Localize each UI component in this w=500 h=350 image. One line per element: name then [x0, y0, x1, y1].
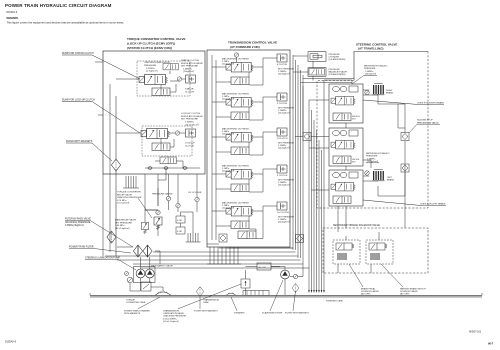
- ECMV transmission F clutch: [226, 169, 253, 179]
- torque converter control valve enclosure box: [103, 51, 205, 174]
- svg-text:D155AX-6: D155AX-6: [5, 341, 17, 344]
- remark sentence: [7, 20, 125, 24]
- wire: TC inner trunk x110: [109, 84, 111, 252]
- pressure gauge right brake: [365, 90, 369, 94]
- label: brake pedal solenoid valve: [349, 264, 379, 296]
- svg-text:SCAVENGING PUMP: SCAVENGING PUMP: [262, 312, 283, 315]
- svg-text:CONVERTER CASE: CONVERTER CASE: [126, 301, 146, 304]
- clutch box 3: [277, 93, 287, 101]
- svg-text:R CLUTCH: R CLUTCH: [277, 138, 288, 140]
- gauge next to scavenging pump: [293, 274, 297, 278]
- svg-text:SOLENOID VALVE: SOLENOID VALVE: [361, 290, 379, 293]
- svg-text:PREVENTION VALVE: PREVENTION VALVE: [417, 121, 439, 124]
- svg-text:D155AX-6: D155AX-6: [7, 11, 18, 14]
- svg-text:(1/F ADD/PRESS): (1/F ADD/PRESS): [329, 73, 346, 76]
- text set pressure g3: [278, 143, 295, 150]
- svg-text:BRAKE: BRAKE: [386, 92, 394, 95]
- svg-text:VLV: VLV: [352, 162, 356, 164]
- heading: transmission control valve: [228, 41, 277, 49]
- secondary valve row lock-up group: [152, 143, 170, 151]
- svg-text:MAX WORKING OIL PRESS: MAX WORKING OIL PRESS: [222, 93, 249, 96]
- P/N relief valve box 2: [308, 68, 326, 77]
- label: P/N relief cylinder: [329, 54, 346, 61]
- wire: goes-for-left-brake feed: [363, 160, 371, 168]
- power train filter diamond A: [133, 245, 142, 257]
- svg-text:LOCK-UP: LOCK-UP: [185, 143, 195, 145]
- tank line double: [90, 293, 482, 297]
- svg-text:OIL CLR: OIL CLR: [258, 267, 266, 269]
- svg-text:MAX WORKING OIL PRESS: MAX WORKING OIL PRESS: [222, 202, 249, 205]
- svg-text:CASE: CASE: [203, 301, 209, 304]
- svg-text:POWER TRAIN HYDRAULIC CIRCUIT: POWER TRAIN HYDRAULIC CIRCUIT DIAGRAM: [5, 3, 112, 8]
- svg-text:MODULATION VALVE: MODULATION VALVE: [181, 115, 203, 118]
- label: transmission lubrication valve: [163, 284, 241, 323]
- svg-text:1.08MPa: 1.08MPa: [183, 68, 193, 70]
- svg-text:{35 ±1 kgf/cm²}: {35 ±1 kgf/cm²}: [115, 227, 130, 230]
- label: main safety valve: [151, 265, 173, 268]
- label: power train strainer with magnets: [124, 297, 160, 315]
- gauge on transmission box top: [234, 53, 238, 57]
- ECMV transmission 3 clutch: [226, 97, 253, 107]
- steering cluster 1 spool caps: [333, 86, 358, 92]
- steering cluster 2 solenoid body: [333, 156, 361, 164]
- wire: TC box risers to relief area: [117, 174, 197, 264]
- valve body transmission g5 second: [231, 221, 249, 229]
- label 1 clutch: [277, 211, 289, 214]
- label: P/N relief balance valve: [329, 69, 348, 76]
- lower small valve TC box: [160, 157, 176, 164]
- wire: transmission drain comb: [207, 247, 241, 264]
- svg-text:SUDDEN STOP: SUDDEN STOP: [417, 120, 433, 122]
- sudden stop prevention valve check B: [401, 164, 409, 172]
- clutch box 4: [277, 54, 287, 62]
- wire: g2 to clutch: [249, 97, 277, 120]
- valve body transmission g1 second: [231, 77, 249, 85]
- svg-text:PRESSURE: PRESSURE: [364, 68, 376, 70]
- gauge above tc relief: [156, 210, 160, 214]
- svg-text:MAX WORKING OIL PRESS: MAX WORKING OIL PRESS: [222, 58, 249, 61]
- secondary brake solenoid valve dashed enclosure: [323, 228, 428, 273]
- sudden stop prevention valve check A: [401, 133, 409, 141]
- label: oil cooler small: [188, 192, 202, 194]
- svg-text:POWER TRAIN FILTER: POWER TRAIN FILTER: [69, 246, 94, 249]
- title: POWER TRAIN HYDRAULIC CIRCUIT DIAGRAM: [5, 3, 112, 8]
- label: goes for right brake: [363, 100, 444, 105]
- svg-text:MAIN RELIEF VALVE: MAIN RELIEF VALVE: [115, 219, 137, 222]
- pressure gauge cluster 1: [166, 196, 170, 200]
- power train filter diamond B: [143, 245, 152, 257]
- wire: horizontal bus lines lower center: [105, 244, 309, 268]
- svg-text:4 CLUTCH: 4 CLUTCH: [277, 64, 288, 66]
- transmission group 4: text block: [222, 165, 249, 173]
- pressure gauge stator: [177, 77, 181, 81]
- text: main relief valve: [115, 219, 137, 230]
- svg-text:CLUTCH: CLUTCH: [185, 145, 194, 147]
- svg-text:0.74 MPa: 0.74 MPa: [117, 200, 127, 202]
- wire: lock-up group connections: [116, 133, 186, 147]
- wire: g3 to clutch: [249, 132, 277, 155]
- steering cluster 2 box: [329, 128, 363, 166]
- svg-text:FILTER WITH MAGNETS: FILTER WITH MAGNETS: [66, 140, 93, 143]
- svg-text:{20 kgf/cm²}: {20 kgf/cm²}: [365, 73, 376, 76]
- steering cluster 2 ECMV: [331, 140, 355, 149]
- label: dump for stator clutch: [62, 52, 140, 79]
- transmission group 1: text block: [222, 58, 249, 66]
- svg-text:{22.0kgf/cm²}: {22.0kgf/cm²}: [278, 112, 291, 115]
- transmission lubrication valve symbol: [241, 279, 250, 288]
- text: stator clutch modulation valve set pressure: [181, 59, 203, 73]
- svg-text:POWER TRAIN STRAINER: POWER TRAIN STRAINER: [124, 310, 150, 313]
- svg-text:PRESSURE GAUGE: PRESSURE GAUGE: [152, 193, 173, 196]
- orifice block upper: [176, 216, 185, 223]
- torque converter relief valve symbol: [154, 217, 162, 230]
- svg-text:F CLUTCH: F CLUTCH: [277, 175, 288, 177]
- svg-text:STATOR: STATOR: [185, 88, 194, 91]
- svg-text:1st CLUTCH: 1st CLUTCH: [277, 211, 289, 214]
- svg-text:TRANSMISSION: TRANSMISSION: [163, 310, 179, 313]
- wire: drain bundle arrowheads: [308, 290, 325, 293]
- svg-text:SET PRESSURE: SET PRESSURE: [181, 66, 198, 68]
- label 2 clutch: [277, 138, 288, 140]
- transmission control valve enclosure box: [207, 50, 290, 247]
- svg-text:DUMP FOR LOCK-UP CLUTCH: DUMP FOR LOCK-UP CLUTCH: [62, 100, 95, 102]
- label: scavenging pump bottom: [262, 280, 283, 315]
- heading: secondary brake solenoid valve: [333, 224, 380, 227]
- label: left brake: [387, 177, 395, 182]
- label: filter with magnets (left): [66, 140, 112, 161]
- svg-text:0.2M: 0.2M: [177, 231, 182, 233]
- inner dashed box lock-up group: [142, 126, 192, 156]
- label: lock-up clutch: [185, 143, 195, 148]
- steering cluster 1 solenoid body: [333, 113, 361, 121]
- label 3 clutch: [277, 103, 288, 105]
- svg-text:3.43 MPa: 3.43 MPa: [115, 225, 125, 227]
- svg-text:TORQUE CONVERTER CONTROL VALVE: TORQUE CONVERTER CONTROL VALVE: [127, 37, 185, 41]
- svg-text:PRESSURE: PRESSURE: [366, 156, 378, 158]
- left brake accumulator comb: [373, 170, 385, 181]
- label: sudden stop prevention valve: [409, 120, 440, 134]
- svg-text:TORQUE CONVERTER: TORQUE CONVERTER: [117, 192, 141, 194]
- svg-text:TRANSMISSION: TRANSMISSION: [203, 299, 219, 302]
- svg-text:MAIN SAFETY VALVE: MAIN SAFETY VALVE: [151, 265, 173, 268]
- pressure gauge cluster 2: [176, 203, 180, 207]
- svg-text:(AT TRAVELLING): (AT TRAVELLING): [358, 47, 384, 51]
- label: D155AX-6 bottom left: [5, 341, 17, 344]
- ECMV transmission 4 clutch: [226, 62, 253, 72]
- wire: pump suction and discharge: [130, 245, 163, 291]
- brake pedal solenoid valve assembly: [333, 240, 360, 264]
- svg-text:9KD57-163: 9KD57-163: [469, 331, 482, 334]
- check circle left of pump: [127, 277, 133, 283]
- small strainer dome mid: [226, 293, 236, 296]
- wire: stator group connections: [116, 71, 186, 92]
- drain comb below TC box: [123, 176, 139, 188]
- steering cluster 3 solenoid body: [333, 196, 351, 204]
- valve body transmission g3 second: [231, 147, 249, 155]
- svg-text:STEERING CASE: STEERING CASE: [326, 300, 343, 303]
- scavenging pump: [281, 270, 290, 279]
- label: dump for lock-up clutch: [62, 100, 140, 134]
- wire: vertical trunk bundle between transmission and steering: [293, 55, 303, 264]
- lock-up clutch actuator: [186, 129, 196, 137]
- svg-text:{0.5±0.3 kgf/cm²}: {0.5±0.3 kgf/cm²}: [163, 320, 179, 323]
- svg-text:(LOCK-UP CLUTCH (ECMV (OFF)): (LOCK-UP CLUTCH (ECMV (OFF)): [127, 41, 175, 45]
- svg-text:CLUTCH: CLUTCH: [185, 91, 194, 93]
- label: metering hydraulic pressure mid: [366, 152, 390, 163]
- transmission group 3: text block: [222, 128, 249, 136]
- orifice block lower: [176, 227, 185, 234]
- pressure gauge left brake: [365, 171, 369, 175]
- label: goes for left brake: [363, 200, 446, 206]
- text set pressure g5: [278, 217, 295, 224]
- svg-text:RELIEF VALVE: RELIEF VALVE: [117, 193, 133, 196]
- steering cluster 3 box: [329, 170, 363, 206]
- svg-text:LOCK-UP CLUTCH: LOCK-UP CLUTCH: [181, 113, 201, 115]
- wire: relief area connections: [145, 168, 197, 236]
- wire: g4 to clutch: [249, 169, 277, 192]
- power train pump: [136, 269, 145, 278]
- svg-text:{22.0kgf/cm²}: {22.0kgf/cm²}: [278, 73, 291, 76]
- svg-text:FILTER WITH MAGNETS: FILTER WITH MAGNETS: [194, 310, 218, 313]
- label: drawing number 9KD57-163: [469, 331, 482, 334]
- text set pressure g1: [278, 69, 295, 76]
- svg-text:PARKING BRAKE SWITCH: PARKING BRAKE SWITCH: [400, 288, 426, 291]
- oil cooler box: [257, 263, 271, 270]
- text set pressure g4: [278, 180, 295, 187]
- check diamond right of transmission: [296, 235, 304, 243]
- stator clutch actuator: [186, 75, 196, 83]
- check diamond transmission bottom: [219, 234, 227, 242]
- clutch box 2: [277, 128, 287, 136]
- label: stator clutch: [185, 88, 194, 94]
- svg-text:STEERING LUBRICATION PUMP: STEERING LUBRICATION PUMP: [85, 257, 120, 260]
- clutch box F: [277, 165, 287, 173]
- label: parking brake solenoid valve: [381, 264, 426, 296]
- svg-text:CRACKING PRESSURE: CRACKING PRESSURE: [163, 315, 187, 318]
- svg-text:0.3MPa {3kgf/cm²}: 0.3MPa {3kgf/cm²}: [65, 224, 84, 227]
- pilot valve above stator ECMV: [163, 64, 178, 70]
- svg-text:SET PRESSURE: SET PRESSURE: [181, 119, 198, 121]
- svg-text:(1/F ADD/PRESS): (1/F ADD/PRESS): [329, 58, 346, 61]
- svg-text:VLV: VLV: [352, 119, 356, 121]
- pump group enclosure: [134, 267, 156, 283]
- svg-text:0.2M: 0.2M: [177, 220, 182, 222]
- svg-text:CRACKING PRESSURE: CRACKING PRESSURE: [117, 196, 142, 199]
- steering cluster 2 spool caps: [333, 130, 358, 136]
- steering lubrication pump: [145, 269, 154, 278]
- transmission group 5: text block: [222, 202, 249, 210]
- check diamond lower left: [107, 231, 116, 243]
- svg-text:STEERING CONTROL VALVE: STEERING CONTROL VALVE: [356, 42, 397, 46]
- svg-text:METERING HYDRAULIC: METERING HYDRAULIC: [366, 152, 390, 155]
- svg-text:3 CLUTCH: 3 CLUTCH: [277, 103, 288, 105]
- label: steering lubrication pump: [85, 257, 136, 271]
- label: page number 96-7: [488, 342, 494, 346]
- svg-text:REMARK: REMARK: [7, 16, 19, 20]
- filter diamond on tank line left: [196, 287, 203, 297]
- wire: steering case drain bundle: [309, 80, 324, 290]
- pressure gauge cluster 3: [195, 197, 199, 201]
- svg-text:DUMP FOR STATOR CLUTCH: DUMP FOR STATOR CLUTCH: [62, 52, 94, 55]
- main relief valve symbol: [141, 222, 148, 233]
- steering cluster 1 box: [329, 84, 363, 123]
- svg-text:1.32MPa: 1.32MPa: [185, 122, 195, 124]
- right brake accumulator comb: [373, 84, 385, 95]
- svg-text:{2.7kgf/cm²}: {2.7kgf/cm²}: [146, 70, 158, 73]
- svg-text:{22.0kgf/cm²}: {22.0kgf/cm²}: [278, 184, 291, 187]
- transmission group 2: text block: [222, 93, 249, 101]
- model number D155AX-6: [7, 11, 18, 14]
- gauge left of pump: [125, 272, 129, 276]
- label: transmission case: [203, 299, 219, 305]
- strainer box on tank line: [243, 291, 269, 296]
- svg-text:FILTER BY-PASS VALVE: FILTER BY-PASS VALVE: [65, 218, 91, 221]
- label 4 clutch: [277, 64, 288, 66]
- steering control valve enclosure: [317, 52, 428, 209]
- svg-text:WITH MAGNETS: WITH MAGNETS: [124, 312, 141, 315]
- svg-text:(AT FORWARD 2 ND): (AT FORWARD 2 ND): [230, 45, 260, 49]
- label: power train filter: [69, 246, 131, 254]
- text: torque converter drive pressure: [144, 62, 170, 73]
- ECMV transmission 2 clutch: [226, 132, 253, 142]
- wire: steering cluster interconnects: [309, 80, 379, 273]
- wire: steering feed lines from P/N valves: [293, 56, 354, 277]
- text set pressure g2: [278, 108, 295, 115]
- leader torque converter relief valve: [138, 198, 152, 218]
- svg-text:STRAINER: STRAINER: [234, 312, 245, 315]
- ECMV lock-up clutch valve: [141, 129, 170, 139]
- svg-text:SECONDARY BRAKE SOLENOID VALVE: SECONDARY BRAKE SOLENOID VALVE: [333, 224, 380, 227]
- wire: cluster1 to comb: [363, 90, 378, 96]
- svg-text:MODULATION VALVE: MODULATION VALVE: [181, 62, 203, 65]
- text: lock-up clutch modulation valve set pressure: [181, 113, 203, 126]
- svg-text:SET PRESSURE: SET PRESSURE: [115, 222, 132, 224]
- wire: TC left trunk vertical x116: [115, 96, 117, 256]
- strainer dome: [155, 291, 171, 296]
- wire: bottom center connections: [246, 267, 294, 296]
- wire: g5 to clutch: [249, 206, 277, 239]
- label: filter with magnets bottom 2: [285, 291, 309, 315]
- wire: transmission feed trunk: [212, 55, 231, 240]
- parking brake solenoid valve assembly: [366, 240, 393, 264]
- filter with magnets diamond in TC box: [111, 159, 120, 171]
- svg-text:{20 kgf/cm²}: {20 kgf/cm²}: [367, 160, 378, 163]
- svg-text:MAX WORKING OIL PRESS: MAX WORKING OIL PRESS: [222, 128, 249, 131]
- check diamond left of steering: [303, 133, 311, 141]
- label: right brake: [386, 90, 394, 95]
- P/N relief valve box 1: [308, 52, 326, 62]
- drain trough right of reliefs: [186, 233, 201, 242]
- svg-text:CRACKING PRESSURE: CRACKING PRESSURE: [65, 221, 91, 224]
- svg-text:{7.5 kgf/cm²}: {7.5 kgf/cm²}: [117, 202, 130, 205]
- svg-text:MAX WORKING OIL PRESS: MAX WORKING OIL PRESS: [222, 165, 249, 168]
- svg-text:BALANCE'S VALVE: BALANCE'S VALVE: [329, 71, 348, 74]
- secondary valve row stator group: [152, 88, 170, 96]
- svg-text:{22.0kgf/cm²}: {22.0kgf/cm²}: [278, 221, 291, 224]
- svg-text:(STATOR CLUTCH (ECMV (ON)): (STATOR CLUTCH (ECMV (ON)): [127, 46, 172, 50]
- svg-text:0.27MPa: 0.27MPa: [146, 68, 156, 70]
- wire: TC bottom row: [145, 161, 200, 168]
- svg-text:OIL COOLER: OIL COOLER: [188, 192, 202, 194]
- text: torque converter relief valve: [117, 192, 142, 205]
- heading: torque converter control valve: [127, 37, 185, 50]
- wire: cluster3 to comb: [295, 137, 405, 229]
- svg-text:{11kgf/cm²}: {11kgf/cm²}: [183, 70, 194, 73]
- wire: left trunk from TC box to bus: [95, 62, 103, 256]
- inner dashed box stator group: [137, 61, 190, 96]
- svg-text:METERING HYDRAULIC: METERING HYDRAULIC: [364, 65, 388, 68]
- heading: steering control valve: [356, 42, 397, 50]
- text: filter by-pass valve: [65, 218, 133, 248]
- svg-text:96-7: 96-7: [488, 342, 494, 346]
- valve body transmission g2 second: [231, 112, 249, 120]
- filter diamond on tank line right: [292, 284, 299, 293]
- svg-text:BRAKE PEDAL: BRAKE PEDAL: [361, 288, 376, 291]
- safety valve box: [141, 282, 151, 291]
- svg-text:PRESSURE: PRESSURE: [144, 65, 157, 67]
- svg-text:LUBRICATION VALVE: LUBRICATION VALVE: [163, 312, 184, 315]
- label: filter with magnets bottom 1: [194, 297, 218, 313]
- svg-text:BRAKE: BRAKE: [387, 179, 395, 182]
- svg-text:{22.0kgf/cm²}: {22.0kgf/cm²}: [278, 147, 291, 150]
- steering cluster 1 ECMV: [331, 96, 355, 105]
- wire: brake accumulator drops: [378, 96, 405, 196]
- valve body transmission g5 third: [238, 231, 256, 239]
- valve body transmission g4 second: [231, 184, 249, 192]
- pressure gauge lock-up: [175, 131, 179, 135]
- clutch box 1: [277, 202, 287, 210]
- label: strainer bottom: [231, 297, 245, 315]
- label: metering hydraulic pressure top: [352, 65, 388, 85]
- svg-text:GOES FOR RIGHT BRAKE: GOES FOR RIGHT BRAKE: [417, 102, 444, 105]
- REMARK heading: [7, 16, 19, 20]
- svg-text:This figure covers the equipme: This figure covers the equipment and dev…: [7, 20, 125, 24]
- svg-text:SOLENOID VALVE: SOLENOID VALVE: [400, 290, 418, 293]
- svg-text:GOES FOR LEFT BRAKE: GOES FOR LEFT BRAKE: [420, 203, 446, 206]
- label F clutch: [277, 175, 288, 177]
- ECMV stator clutch valve: [139, 75, 168, 85]
- label: torque converter case: [126, 300, 146, 305]
- svg-text:TRANSMISSION CONTROL VALVE: TRANSMISSION CONTROL VALVE: [228, 41, 277, 45]
- check valve row TC bottom: [147, 166, 187, 169]
- ECMV transmission 1 clutch: [226, 206, 253, 216]
- wire: g1 to clutch: [237, 57, 278, 85]
- svg-text:FILTER WITH MAGNETS: FILTER WITH MAGNETS: [285, 312, 309, 315]
- label: steering case: [326, 300, 343, 303]
- steering cluster 3 ECMV: [331, 182, 355, 191]
- steering cluster 3 spool caps: [333, 172, 358, 178]
- label: pressure gauge left: [152, 193, 173, 196]
